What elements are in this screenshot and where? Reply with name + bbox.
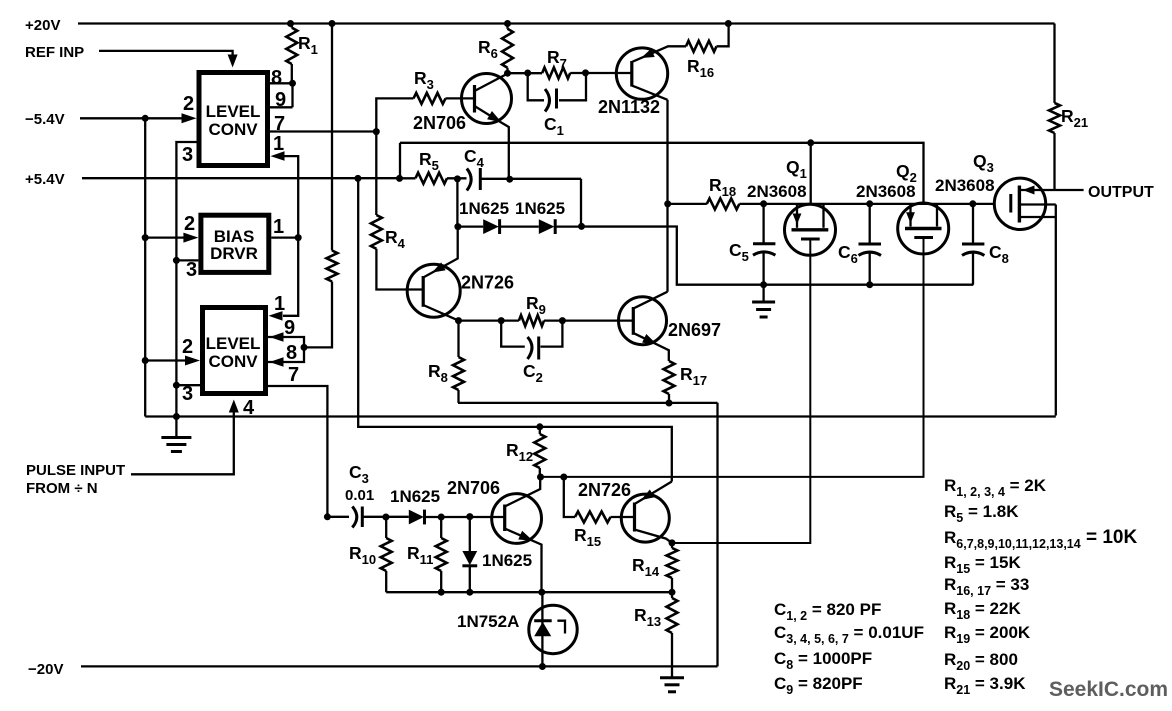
svg-text:9: 9 xyxy=(275,89,286,111)
svg-text:2N3608: 2N3608 xyxy=(856,182,916,201)
svg-text:8: 8 xyxy=(286,342,297,364)
svg-text:2N697: 2N697 xyxy=(668,320,721,340)
svg-text:1N625: 1N625 xyxy=(459,199,509,218)
svg-text:2N1132: 2N1132 xyxy=(598,97,660,117)
svg-text:8: 8 xyxy=(271,67,282,89)
svg-text:PULSE INPUT: PULSE INPUT xyxy=(26,462,125,479)
svg-text:−5.4V: −5.4V xyxy=(25,111,65,128)
svg-text:1: 1 xyxy=(274,293,285,315)
svg-text:SeekIC.com: SeekIC.com xyxy=(1049,678,1168,701)
svg-text:1N752A: 1N752A xyxy=(457,612,519,631)
svg-text:2: 2 xyxy=(182,336,193,358)
svg-text:2N706: 2N706 xyxy=(413,113,466,133)
svg-text:9: 9 xyxy=(284,317,295,339)
svg-text:−20V: −20V xyxy=(28,661,63,678)
svg-text:1N625: 1N625 xyxy=(390,487,440,506)
svg-text:1: 1 xyxy=(273,216,284,238)
svg-text:+20V: +20V xyxy=(25,17,60,34)
svg-text:1N625: 1N625 xyxy=(515,199,565,218)
svg-text:FROM ÷ N: FROM ÷ N xyxy=(26,480,98,497)
svg-text:2N3608: 2N3608 xyxy=(747,182,807,201)
svg-text:LEVEL: LEVEL xyxy=(206,102,261,121)
svg-text:2: 2 xyxy=(184,213,195,235)
svg-text:7: 7 xyxy=(288,364,299,386)
svg-text:CONV: CONV xyxy=(208,352,258,371)
svg-text:2N726: 2N726 xyxy=(461,273,514,293)
svg-text:2N726: 2N726 xyxy=(578,480,631,500)
svg-text:7: 7 xyxy=(274,113,285,135)
svg-text:4: 4 xyxy=(243,397,255,419)
svg-text:3: 3 xyxy=(186,259,197,281)
svg-text:0.01: 0.01 xyxy=(345,487,374,504)
svg-text:LEVEL: LEVEL xyxy=(206,334,261,353)
svg-text:OUTPUT: OUTPUT xyxy=(1088,184,1154,201)
svg-text:2N706: 2N706 xyxy=(447,478,500,498)
svg-text:3: 3 xyxy=(182,144,193,166)
svg-text:3: 3 xyxy=(182,383,193,405)
svg-text:CONV: CONV xyxy=(208,120,258,139)
svg-text:2N3608: 2N3608 xyxy=(935,176,995,195)
svg-text:1: 1 xyxy=(273,133,284,155)
svg-text:+5.4V: +5.4V xyxy=(25,171,65,188)
svg-text:1N625: 1N625 xyxy=(482,551,532,570)
svg-text:REF INP: REF INP xyxy=(25,44,84,61)
svg-text:DRVR: DRVR xyxy=(210,244,258,263)
svg-text:2: 2 xyxy=(183,93,194,115)
